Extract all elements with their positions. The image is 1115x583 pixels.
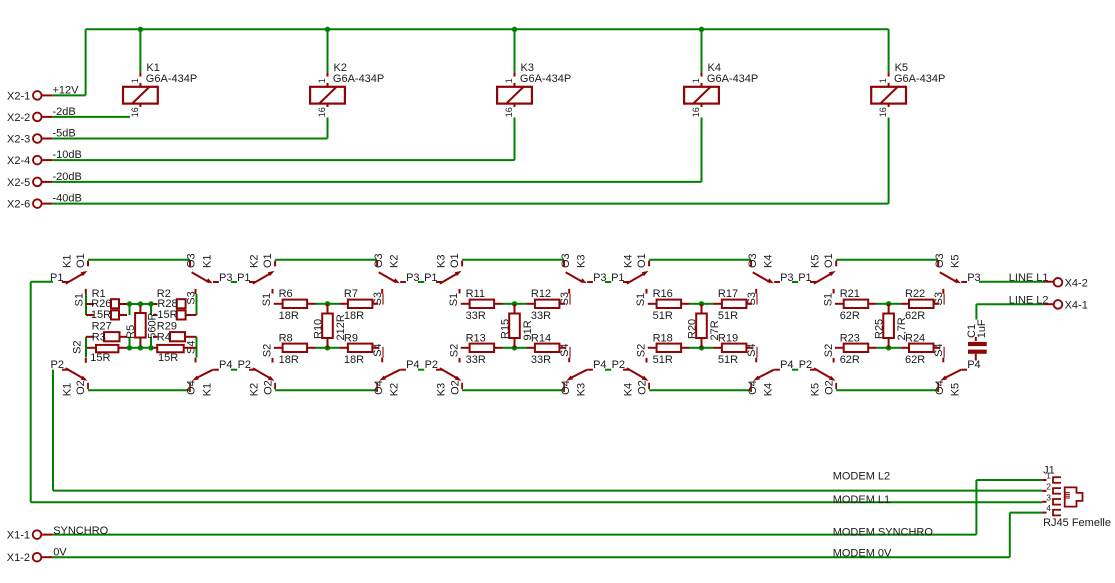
svg-text:X2-1: X2-1 bbox=[7, 90, 30, 102]
svg-text:K5: K5 bbox=[810, 383, 822, 396]
svg-text:3: 3 bbox=[1046, 492, 1051, 502]
svg-text:X1-1: X1-1 bbox=[7, 530, 30, 542]
svg-text:MODEM SYNCHRO: MODEM SYNCHRO bbox=[833, 527, 934, 539]
svg-text:R7: R7 bbox=[344, 288, 358, 300]
svg-text:S1: S1 bbox=[448, 293, 460, 306]
svg-text:15R: 15R bbox=[157, 309, 177, 321]
svg-text:O3: O3 bbox=[373, 253, 385, 268]
svg-text:R14: R14 bbox=[531, 332, 551, 344]
svg-text:62R: 62R bbox=[905, 310, 925, 322]
svg-text:1: 1 bbox=[130, 78, 140, 83]
svg-text:O2: O2 bbox=[262, 380, 274, 395]
svg-text:R20: R20 bbox=[686, 319, 698, 339]
svg-text:X4-2: X4-2 bbox=[1065, 277, 1088, 289]
svg-text:K2: K2 bbox=[249, 255, 261, 268]
svg-text:62R: 62R bbox=[840, 310, 860, 322]
svg-text:O1: O1 bbox=[636, 253, 648, 268]
svg-text:G6A-434P: G6A-434P bbox=[707, 73, 758, 85]
svg-text:2: 2 bbox=[1046, 481, 1051, 491]
svg-text:P2: P2 bbox=[799, 359, 812, 371]
svg-text:X2-4: X2-4 bbox=[7, 155, 30, 167]
svg-text:G6A-434P: G6A-434P bbox=[333, 73, 384, 85]
svg-text:P2: P2 bbox=[612, 359, 625, 371]
svg-text:O2: O2 bbox=[75, 380, 87, 395]
svg-text:K1: K1 bbox=[62, 383, 74, 396]
svg-text:R13: R13 bbox=[466, 332, 486, 344]
svg-text:P4: P4 bbox=[219, 359, 232, 371]
svg-text:X2-5: X2-5 bbox=[7, 177, 30, 189]
svg-text:33R: 33R bbox=[466, 310, 486, 322]
svg-text:SYNCHRO: SYNCHRO bbox=[53, 525, 108, 537]
svg-text:18R: 18R bbox=[279, 310, 299, 322]
svg-text:1: 1 bbox=[317, 78, 327, 83]
svg-text:16: 16 bbox=[130, 107, 140, 117]
svg-text:O4: O4 bbox=[560, 380, 572, 395]
svg-text:R6: R6 bbox=[279, 288, 293, 300]
svg-text:15R: 15R bbox=[158, 352, 178, 364]
svg-text:O3: O3 bbox=[186, 253, 198, 268]
svg-text:R24: R24 bbox=[905, 332, 925, 344]
svg-text:P1: P1 bbox=[798, 272, 811, 284]
svg-text:S2: S2 bbox=[636, 344, 648, 357]
svg-text:R25: R25 bbox=[873, 319, 885, 339]
svg-text:O3: O3 bbox=[747, 253, 759, 268]
svg-text:R18: R18 bbox=[653, 332, 673, 344]
svg-text:S4: S4 bbox=[559, 343, 571, 356]
svg-text:0V: 0V bbox=[53, 547, 67, 559]
svg-text:X2-2: X2-2 bbox=[7, 112, 30, 124]
svg-text:R22: R22 bbox=[905, 288, 925, 300]
svg-text:P4: P4 bbox=[780, 359, 793, 371]
svg-text:R19: R19 bbox=[718, 332, 738, 344]
svg-text:O1: O1 bbox=[449, 253, 461, 268]
svg-text:S2: S2 bbox=[823, 344, 835, 357]
svg-text:O2: O2 bbox=[636, 380, 648, 395]
svg-text:212R: 212R bbox=[335, 314, 347, 340]
svg-text:O1: O1 bbox=[823, 253, 835, 268]
svg-text:51R: 51R bbox=[653, 310, 673, 322]
svg-text:P4: P4 bbox=[406, 359, 419, 371]
svg-text:S1: S1 bbox=[822, 293, 834, 306]
svg-text:R11: R11 bbox=[466, 288, 485, 300]
svg-text:K1: K1 bbox=[202, 383, 214, 396]
svg-text:O2: O2 bbox=[823, 380, 835, 395]
svg-text:1: 1 bbox=[878, 78, 888, 83]
svg-text:S1: S1 bbox=[635, 293, 647, 306]
svg-text:O3: O3 bbox=[560, 253, 572, 268]
svg-text:P2: P2 bbox=[238, 359, 251, 371]
svg-text:S1: S1 bbox=[261, 293, 273, 306]
svg-text:K4: K4 bbox=[763, 383, 775, 396]
svg-text:P3: P3 bbox=[780, 272, 793, 284]
svg-text:P1: P1 bbox=[237, 272, 250, 284]
svg-text:S4: S4 bbox=[372, 343, 384, 356]
svg-text:R10: R10 bbox=[312, 319, 324, 339]
svg-text:R3: R3 bbox=[92, 331, 106, 343]
svg-text:O3: O3 bbox=[934, 253, 946, 268]
svg-text:R21: R21 bbox=[840, 288, 860, 300]
svg-text:P3: P3 bbox=[967, 272, 980, 284]
svg-text:K2: K2 bbox=[389, 255, 401, 268]
svg-text:K2: K2 bbox=[249, 383, 261, 396]
svg-text:LINE L1: LINE L1 bbox=[1009, 272, 1049, 284]
svg-text:62R: 62R bbox=[840, 354, 860, 366]
svg-text:33R: 33R bbox=[466, 354, 486, 366]
svg-text:K2: K2 bbox=[389, 383, 401, 396]
svg-text:K4: K4 bbox=[623, 255, 635, 268]
svg-text:16: 16 bbox=[878, 107, 888, 117]
svg-text:P2: P2 bbox=[51, 359, 64, 371]
svg-text:18R: 18R bbox=[279, 354, 299, 366]
svg-text:18R: 18R bbox=[344, 354, 364, 366]
svg-text:R23: R23 bbox=[840, 332, 860, 344]
svg-text:P4: P4 bbox=[593, 359, 606, 371]
svg-text:51R: 51R bbox=[718, 354, 738, 366]
svg-text:K1: K1 bbox=[62, 255, 74, 268]
svg-text:62R: 62R bbox=[905, 354, 925, 366]
svg-text:P3: P3 bbox=[219, 272, 232, 284]
svg-text:P1: P1 bbox=[611, 272, 624, 284]
svg-text:LINE L2: LINE L2 bbox=[1009, 294, 1049, 306]
svg-text:S2: S2 bbox=[449, 344, 461, 357]
svg-text:O1: O1 bbox=[262, 253, 274, 268]
svg-text:K5: K5 bbox=[950, 255, 962, 268]
svg-text:15R: 15R bbox=[91, 309, 111, 321]
svg-text:G6A-434P: G6A-434P bbox=[146, 73, 197, 85]
svg-text:S2: S2 bbox=[262, 344, 274, 357]
svg-text:P1: P1 bbox=[424, 272, 437, 284]
svg-text:K3: K3 bbox=[576, 255, 588, 268]
svg-text:R8: R8 bbox=[279, 332, 293, 344]
svg-text:K5: K5 bbox=[810, 255, 822, 268]
svg-text:1: 1 bbox=[1046, 471, 1051, 481]
svg-text:S2: S2 bbox=[72, 341, 84, 354]
svg-text:X4-1: X4-1 bbox=[1065, 299, 1088, 311]
svg-text:X2-3: X2-3 bbox=[7, 134, 30, 146]
svg-text:S4: S4 bbox=[933, 343, 945, 356]
svg-text:1: 1 bbox=[691, 78, 701, 83]
svg-text:2,7R: 2,7R bbox=[896, 317, 908, 340]
svg-text:K4: K4 bbox=[763, 255, 775, 268]
svg-text:27R: 27R bbox=[709, 320, 721, 340]
svg-text:RJ45 Femelle: RJ45 Femelle bbox=[1043, 517, 1111, 529]
svg-text:R4: R4 bbox=[157, 331, 171, 343]
svg-text:4: 4 bbox=[1046, 503, 1051, 513]
svg-text:K5: K5 bbox=[950, 383, 962, 396]
svg-text:MODEM L2: MODEM L2 bbox=[833, 470, 890, 482]
svg-text:16: 16 bbox=[504, 107, 514, 117]
svg-text:P4: P4 bbox=[967, 359, 980, 371]
svg-text:O4: O4 bbox=[186, 380, 198, 395]
svg-text:MODEM L1: MODEM L1 bbox=[833, 494, 890, 506]
svg-text:R17: R17 bbox=[718, 288, 738, 300]
svg-text:K3: K3 bbox=[576, 383, 588, 396]
svg-text:1uF: 1uF bbox=[976, 319, 988, 338]
svg-text:O4: O4 bbox=[747, 380, 759, 395]
svg-text:O4: O4 bbox=[934, 380, 946, 395]
svg-text:K3: K3 bbox=[436, 383, 448, 396]
svg-text:R16: R16 bbox=[653, 288, 673, 300]
svg-text:G6A-434P: G6A-434P bbox=[894, 73, 945, 85]
svg-text:S1: S1 bbox=[73, 293, 85, 306]
svg-text:51R: 51R bbox=[718, 310, 738, 322]
svg-text:1: 1 bbox=[504, 78, 514, 83]
svg-text:G6A-434P: G6A-434P bbox=[520, 73, 571, 85]
svg-text:91R: 91R bbox=[522, 320, 534, 340]
svg-text:X1-2: X1-2 bbox=[7, 552, 30, 564]
svg-text:15R: 15R bbox=[90, 352, 110, 364]
svg-text:51R: 51R bbox=[653, 354, 673, 366]
svg-text:K4: K4 bbox=[623, 383, 635, 396]
svg-text:33R: 33R bbox=[531, 310, 551, 322]
svg-text:33R: 33R bbox=[531, 354, 551, 366]
svg-text:18R: 18R bbox=[344, 310, 364, 322]
svg-text:R5: R5 bbox=[125, 325, 137, 339]
svg-text:R15: R15 bbox=[499, 319, 511, 339]
svg-text:K3: K3 bbox=[436, 255, 448, 268]
svg-text:X2-6: X2-6 bbox=[7, 199, 30, 211]
svg-text:P3: P3 bbox=[406, 272, 419, 284]
svg-text:K1: K1 bbox=[202, 255, 214, 268]
svg-text:O2: O2 bbox=[449, 380, 461, 395]
svg-text:MODEM 0V: MODEM 0V bbox=[833, 548, 892, 560]
svg-text:R12: R12 bbox=[531, 288, 551, 300]
svg-text:O4: O4 bbox=[373, 380, 385, 395]
svg-text:P3: P3 bbox=[593, 272, 606, 284]
svg-text:P2: P2 bbox=[425, 359, 438, 371]
svg-text:S4: S4 bbox=[746, 343, 758, 356]
svg-text:O1: O1 bbox=[75, 253, 87, 268]
svg-text:16: 16 bbox=[317, 107, 327, 117]
svg-text:16: 16 bbox=[691, 107, 701, 117]
